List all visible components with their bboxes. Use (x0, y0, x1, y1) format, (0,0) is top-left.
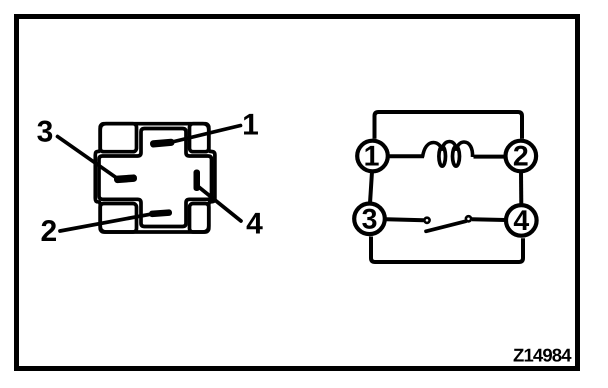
schematic: wire node1 to node3 (370, 172, 372, 204)
schematic: bottom rail wire (371, 237, 523, 263)
schematic: wire node3 to switch contact (387, 217, 424, 222)
relay connector body: corner block bottom-right (190, 204, 209, 233)
relay connector outer case outline (95, 124, 215, 232)
relay connector inner cross cavity outline (99, 129, 212, 227)
svg-text:4: 4 (246, 208, 263, 241)
pin 2 slot (149, 209, 172, 217)
svg-text:2: 2 (41, 215, 58, 248)
node 3 circle (354, 204, 385, 235)
leader line from label 3 to pin 3 (58, 137, 117, 178)
relay coil: loop 1 (439, 147, 446, 167)
switch blade (426, 221, 466, 231)
pin 1 slot (150, 138, 175, 147)
pin 4 slot (194, 170, 201, 192)
relay coil: hump 2 (442, 142, 456, 151)
switch contact circle right (466, 216, 471, 221)
svg-text:4: 4 (513, 205, 529, 237)
relay connector body: corner block top-right (190, 124, 209, 152)
svg-text:3: 3 (37, 116, 54, 149)
switch contact circle left (424, 218, 429, 223)
node 4 circle (506, 205, 537, 236)
pin 3 slot (114, 174, 137, 183)
svg-text:2: 2 (513, 141, 529, 173)
relay coil L between 1 and 2: hump 1 (423, 143, 443, 158)
schematic: wire node2 to node4 (519, 172, 523, 205)
svg-text:Z14984: Z14984 (513, 345, 572, 366)
relay connector body: corner block top-left (100, 124, 136, 152)
schematic: wire switch to node4 (472, 217, 505, 222)
svg-text:1: 1 (364, 141, 380, 173)
leader line from label 4 to pin 4 (198, 186, 242, 221)
relay connector body: corner block bottom-left (100, 204, 136, 233)
relay coil: loop 2 (453, 147, 460, 167)
leader line from label 1 to pin 1 (170, 126, 241, 143)
node 1 circle (357, 141, 388, 172)
svg-text:1: 1 (242, 109, 259, 142)
svg-text:3: 3 (362, 203, 378, 235)
schematic: wire coil to node2 (474, 155, 505, 159)
node 2 circle (506, 141, 537, 172)
leader line from label 2 to pin 2 (60, 214, 150, 231)
schematic: top rail wire (375, 112, 523, 139)
relay coil: hump 3 (456, 142, 472, 157)
schematic: wire node1 to coil (390, 154, 425, 158)
